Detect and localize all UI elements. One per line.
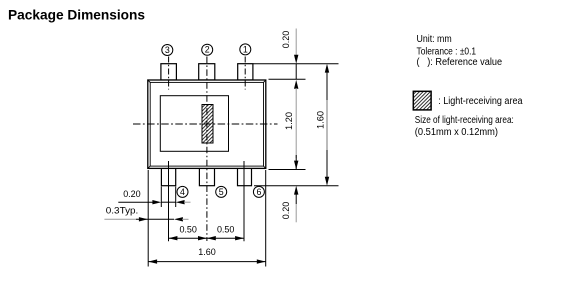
svg-text:0.20: 0.20 <box>281 202 291 220</box>
pin 3 <box>161 64 177 80</box>
dimension 0.3 Typ <box>104 217 188 221</box>
svg-text:4: 4 <box>180 187 185 197</box>
dimension 0.50 left <box>169 236 207 240</box>
extension line pin 4 right edge <box>175 187 177 208</box>
svg-text:0.20: 0.20 <box>123 189 141 199</box>
svg-text:Package Dimensions: Package Dimensions <box>8 6 145 22</box>
pin 2 <box>199 64 215 80</box>
extension line from body top to right <box>269 78 306 80</box>
extension line pin 6 center <box>243 161 245 241</box>
pin number label 6 <box>253 186 264 197</box>
pin 2 / pin 5 vertical centerline <box>206 57 208 242</box>
dimension 0.20 bottom right (pin height) <box>294 186 298 223</box>
pin 1 <box>238 64 253 80</box>
svg-text:2: 2 <box>205 45 210 55</box>
svg-text:6: 6 <box>256 187 261 197</box>
legend hatch square <box>413 91 431 110</box>
light-receiving area (hatched) <box>202 105 213 144</box>
svg-text:1.20: 1.20 <box>284 112 294 130</box>
svg-text:Unit: mm: Unit: mm <box>417 34 452 45</box>
pin number label 4 <box>177 186 188 197</box>
extension line from pin 1 top to right <box>253 63 338 65</box>
svg-text:0.50: 0.50 <box>217 224 235 234</box>
svg-text:Size of light-receiving area:: Size of light-receiving area: <box>415 115 514 126</box>
pin 1 centerline <box>244 57 246 90</box>
svg-text:5: 5 <box>219 187 224 197</box>
horizontal centerline <box>133 123 278 125</box>
pin 5 <box>199 168 214 185</box>
extension line from body bottom to right <box>269 169 306 171</box>
dimension 0.20 top right (pin height) <box>294 29 298 80</box>
svg-text:0.3Typ.: 0.3Typ. <box>106 206 139 216</box>
extension line pin 4 center <box>168 161 170 241</box>
package body outer outline <box>148 80 266 168</box>
pin number label 1 <box>240 44 251 55</box>
pin number label 3 <box>162 45 173 56</box>
svg-text:0.20: 0.20 <box>281 31 291 49</box>
pin 4 <box>161 168 175 185</box>
dimension 1.20 (body height) <box>294 80 298 170</box>
pin 6 <box>238 168 252 185</box>
extension line body left edge down <box>147 170 149 267</box>
extension line from pin bottom to right <box>254 185 339 187</box>
svg-text:1.60: 1.60 <box>198 247 216 257</box>
svg-text:0.50: 0.50 <box>179 224 197 234</box>
svg-text:Tolerance : ±0.1: Tolerance : ±0.1 <box>417 46 477 57</box>
cavity outline <box>160 96 228 152</box>
dimension 0.50 right <box>207 236 244 240</box>
svg-text:(0.51mm x 0.12mm): (0.51mm x 0.12mm) <box>415 127 498 138</box>
svg-text:( ): Reference value: ( ): Reference value <box>417 57 503 68</box>
extension line pin 4 left edge <box>160 187 162 208</box>
pin number label 2 <box>202 44 213 55</box>
dimension 1.60 bottom (overall width) <box>148 259 266 263</box>
dimension 1.60 right (overall height) <box>325 64 329 186</box>
dimension 0.20 (bottom pin width) <box>118 200 190 204</box>
svg-text:3: 3 <box>165 45 170 55</box>
pin number label 5 <box>216 186 227 197</box>
package body inner outline with corner chamfers <box>148 80 266 168</box>
svg-text:1: 1 <box>243 44 248 54</box>
svg-text:1.60: 1.60 <box>316 111 326 129</box>
extension line body right edge down <box>265 170 267 267</box>
pin 3 centerline <box>168 57 170 90</box>
svg-text:: Light-receiving area: : Light-receiving area <box>438 96 523 107</box>
